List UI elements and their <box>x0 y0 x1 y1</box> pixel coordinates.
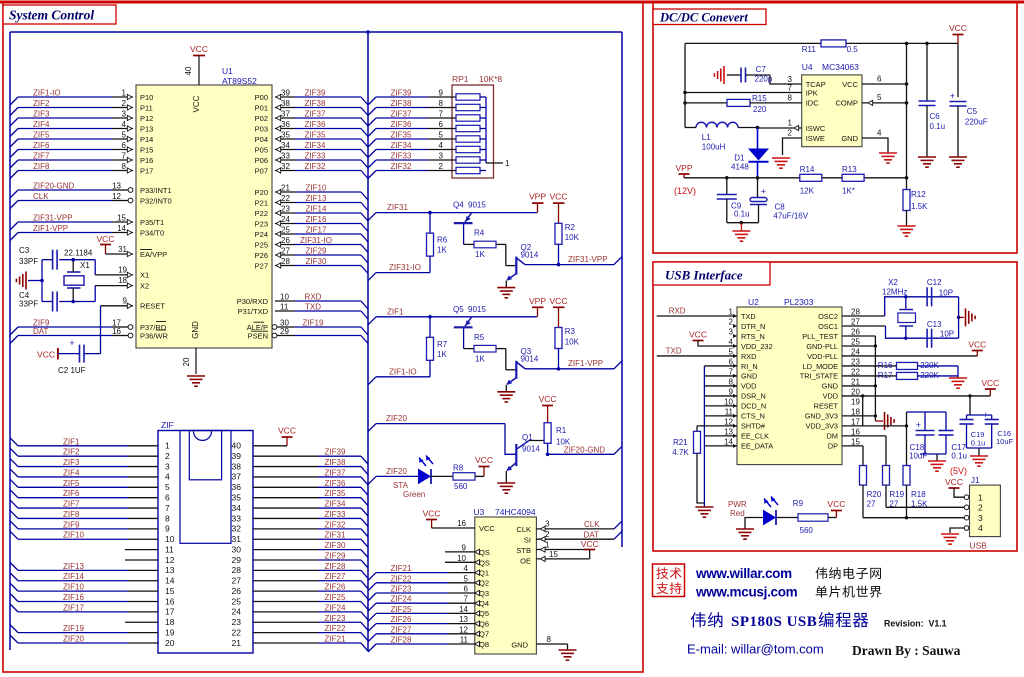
svg-text:12: 12 <box>165 555 175 565</box>
svg-text:8: 8 <box>729 377 734 386</box>
svg-text:C7: C7 <box>756 65 767 74</box>
svg-text:13: 13 <box>112 182 121 191</box>
svg-text:VPP: VPP <box>675 163 692 173</box>
svg-text:Revision: V1.1: Revision: V1.1 <box>884 619 947 629</box>
svg-text:2: 2 <box>788 129 793 138</box>
svg-text:27: 27 <box>281 247 290 256</box>
svg-text:28: 28 <box>281 257 290 266</box>
svg-text:6: 6 <box>165 493 170 503</box>
svg-text:ZIF17: ZIF17 <box>63 603 84 612</box>
svg-text:4: 4 <box>439 141 444 150</box>
svg-text:ZIF28: ZIF28 <box>391 636 412 645</box>
svg-text:7: 7 <box>464 595 469 604</box>
svg-text:(12V): (12V) <box>674 186 696 196</box>
svg-text:35: 35 <box>281 131 290 140</box>
svg-text:Q3: Q3 <box>479 589 489 598</box>
svg-text:VCC: VCC <box>581 539 599 549</box>
svg-text:ZIF17: ZIF17 <box>306 226 327 235</box>
svg-text:5: 5 <box>122 131 127 140</box>
svg-text:25: 25 <box>281 226 290 235</box>
svg-text:RI_N: RI_N <box>741 362 758 371</box>
svg-text:VCC: VCC <box>192 95 201 112</box>
svg-text:6: 6 <box>877 75 882 84</box>
svg-text:R17: R17 <box>878 371 893 380</box>
svg-text:MC34063: MC34063 <box>822 62 859 72</box>
svg-text:7: 7 <box>729 367 734 376</box>
svg-text:ZIF37: ZIF37 <box>391 110 412 119</box>
svg-text:27: 27 <box>889 500 898 509</box>
svg-text:ZIF10: ZIF10 <box>63 583 84 592</box>
svg-text:DAT: DAT <box>33 327 49 336</box>
svg-text:P00: P00 <box>255 93 268 102</box>
svg-text:25: 25 <box>232 596 242 606</box>
svg-text:9: 9 <box>462 543 467 552</box>
svg-text:ZIF29: ZIF29 <box>306 247 327 256</box>
svg-text:CLK: CLK <box>516 525 531 534</box>
svg-text:TXD: TXD <box>305 303 321 312</box>
svg-text:13: 13 <box>459 615 468 624</box>
svg-text:ZIF23: ZIF23 <box>325 614 346 623</box>
svg-text:23: 23 <box>232 617 242 627</box>
svg-text:System Control: System Control <box>9 8 94 23</box>
svg-text:P21: P21 <box>255 198 268 207</box>
svg-text:RXD: RXD <box>669 307 686 316</box>
svg-text:3: 3 <box>165 461 170 471</box>
svg-text:ZIF20-GND: ZIF20-GND <box>33 182 75 191</box>
svg-text:Drawn By : Sauwa: Drawn By : Sauwa <box>852 643 961 658</box>
svg-text:P14: P14 <box>140 135 153 144</box>
svg-text:STA: STA <box>393 481 409 490</box>
svg-text:P17: P17 <box>140 166 153 175</box>
svg-text:11: 11 <box>725 407 734 416</box>
svg-text:OSC2: OSC2 <box>818 312 838 321</box>
svg-text:VDD_232: VDD_232 <box>741 342 773 351</box>
svg-text:R14: R14 <box>800 165 815 174</box>
svg-text:7: 7 <box>788 84 793 93</box>
svg-text:4: 4 <box>877 129 882 138</box>
svg-text:P31/TXD: P31/TXD <box>238 307 269 316</box>
svg-text:VDD: VDD <box>823 392 838 401</box>
svg-text:P16: P16 <box>140 156 153 165</box>
svg-text:OSC1: OSC1 <box>818 322 838 331</box>
svg-text:+: + <box>916 420 921 430</box>
svg-text:ZIF38: ZIF38 <box>391 99 412 108</box>
svg-text:DC/DC Conevert: DC/DC Conevert <box>659 11 748 25</box>
svg-text:ZIF25: ZIF25 <box>391 605 412 614</box>
svg-text:ZIF13: ZIF13 <box>306 194 327 203</box>
svg-text:ZIF24: ZIF24 <box>325 603 346 612</box>
svg-text:6: 6 <box>464 585 469 594</box>
svg-text:ZIF13: ZIF13 <box>63 562 84 571</box>
svg-text:36: 36 <box>232 482 242 492</box>
svg-text:7: 7 <box>439 110 444 119</box>
svg-text:10: 10 <box>457 554 466 563</box>
svg-text:ZIF21: ZIF21 <box>391 564 412 573</box>
svg-text:ZIF8: ZIF8 <box>63 510 80 519</box>
svg-text:P10: P10 <box>140 93 153 102</box>
svg-text:1K: 1K <box>475 354 485 363</box>
svg-text:ZIF28: ZIF28 <box>325 562 346 571</box>
svg-text:C12: C12 <box>927 278 942 287</box>
svg-text:1: 1 <box>165 441 170 451</box>
svg-text:R3: R3 <box>565 327 576 336</box>
svg-text:15: 15 <box>549 550 558 559</box>
svg-text:TXD: TXD <box>741 312 756 321</box>
svg-text:X1: X1 <box>140 271 149 280</box>
svg-text:14: 14 <box>117 224 126 233</box>
svg-text:27: 27 <box>232 576 242 586</box>
svg-text:VCC: VCC <box>689 330 707 340</box>
svg-text:100uH: 100uH <box>702 143 726 152</box>
svg-text:ZIF1: ZIF1 <box>63 437 80 446</box>
svg-text:VDD_3V3: VDD_3V3 <box>806 422 838 431</box>
svg-text:R20: R20 <box>867 490 882 499</box>
svg-text:ZIF2: ZIF2 <box>63 448 80 457</box>
svg-text:9: 9 <box>123 297 128 306</box>
svg-text:0.1u: 0.1u <box>971 439 986 448</box>
svg-text:13: 13 <box>165 565 175 575</box>
svg-text:ZIF39: ZIF39 <box>391 89 412 98</box>
svg-text:ISWE: ISWE <box>806 134 825 143</box>
svg-text:R21: R21 <box>673 438 688 447</box>
svg-text:ZIF20-GND: ZIF20-GND <box>564 445 606 454</box>
svg-text:10: 10 <box>280 293 289 302</box>
svg-text:ZIF22: ZIF22 <box>325 624 346 633</box>
svg-text:32: 32 <box>281 162 290 171</box>
svg-text:9015: 9015 <box>468 305 486 314</box>
svg-text:7: 7 <box>122 152 127 161</box>
svg-text:12: 12 <box>112 192 121 201</box>
svg-text:23: 23 <box>281 205 290 214</box>
svg-text:ZIF36: ZIF36 <box>391 120 412 129</box>
svg-text:4: 4 <box>978 523 983 533</box>
svg-text:9014: 9014 <box>522 445 540 454</box>
svg-text:U2: U2 <box>748 297 759 307</box>
svg-text:R13: R13 <box>842 165 857 174</box>
svg-text:21: 21 <box>232 638 242 648</box>
svg-text:VCC: VCC <box>190 44 208 54</box>
svg-text:10K: 10K <box>565 233 580 242</box>
svg-text:P03: P03 <box>255 124 268 133</box>
svg-text:ZIF29: ZIF29 <box>325 551 346 560</box>
svg-text:10uF: 10uF <box>996 437 1014 446</box>
svg-text:17: 17 <box>165 607 175 617</box>
svg-text:VCC: VCC <box>278 425 296 435</box>
svg-text:USB Interface: USB Interface <box>665 268 743 283</box>
svg-text:PLL_TEST: PLL_TEST <box>802 332 838 341</box>
svg-text:33PF: 33PF <box>19 300 38 309</box>
svg-text:IDC: IDC <box>806 99 820 108</box>
svg-text:GND-PLL: GND-PLL <box>806 342 838 351</box>
svg-text:EA/VPP: EA/VPP <box>140 250 167 259</box>
svg-text:220uF: 220uF <box>965 118 988 127</box>
svg-text:R4: R4 <box>474 229 485 238</box>
svg-text:25: 25 <box>851 337 860 346</box>
svg-text:16: 16 <box>457 519 466 528</box>
svg-text:ZIF7: ZIF7 <box>33 152 50 161</box>
svg-text:ZIF1-VPP: ZIF1-VPP <box>33 224 68 233</box>
svg-text:2: 2 <box>439 162 444 171</box>
svg-text:2: 2 <box>122 99 127 108</box>
svg-text:ZIF10: ZIF10 <box>306 184 327 193</box>
svg-text:ZIF22: ZIF22 <box>391 574 412 583</box>
svg-text:RXD: RXD <box>741 352 756 361</box>
svg-text:9014: 9014 <box>521 251 539 260</box>
svg-text:19: 19 <box>851 397 860 406</box>
svg-text:38: 38 <box>281 99 290 108</box>
svg-text:13: 13 <box>724 427 733 436</box>
svg-text:21: 21 <box>281 184 290 193</box>
svg-text:1.5K: 1.5K <box>911 500 928 509</box>
svg-text:P02: P02 <box>255 114 268 123</box>
svg-text:ZIF30: ZIF30 <box>325 541 346 550</box>
svg-text:6: 6 <box>122 141 127 150</box>
svg-text:ZIF1: ZIF1 <box>387 307 404 316</box>
svg-text:40: 40 <box>184 66 193 75</box>
svg-text:28: 28 <box>232 565 242 575</box>
svg-text:9: 9 <box>439 89 444 98</box>
svg-text:RP1: RP1 <box>452 74 469 84</box>
svg-text:ZIF31-VPP: ZIF31-VPP <box>33 214 73 223</box>
svg-text:U4: U4 <box>802 62 813 72</box>
svg-text:P07: P07 <box>255 166 268 175</box>
svg-text:ZIF35: ZIF35 <box>325 489 346 498</box>
svg-text:VCC: VCC <box>97 234 115 244</box>
svg-text:ZIF27: ZIF27 <box>325 572 346 581</box>
svg-text:Q2: Q2 <box>479 579 489 588</box>
svg-text:Q8: Q8 <box>479 640 489 649</box>
svg-text:11: 11 <box>460 636 469 645</box>
svg-text:ZIF32: ZIF32 <box>325 520 346 529</box>
svg-text:www.willar.com: www.willar.com <box>695 566 792 581</box>
svg-text:E-mail: willar@tom.com: E-mail: willar@tom.com <box>687 642 824 657</box>
svg-text:ZIF20: ZIF20 <box>63 635 84 644</box>
svg-text:ZIF34: ZIF34 <box>391 141 412 150</box>
svg-text:VPP: VPP <box>529 296 546 306</box>
svg-text:28: 28 <box>851 308 860 317</box>
svg-text:220p: 220p <box>755 75 773 84</box>
svg-text:Q4: Q4 <box>479 599 489 608</box>
svg-text:22: 22 <box>851 367 860 376</box>
svg-text:R19: R19 <box>889 490 904 499</box>
svg-text:27: 27 <box>867 500 876 509</box>
svg-text:RESET: RESET <box>814 402 839 411</box>
svg-text:4: 4 <box>464 564 469 573</box>
svg-text:0.5: 0.5 <box>847 45 859 54</box>
svg-text:+: + <box>69 338 74 348</box>
svg-text:ZIF35: ZIF35 <box>391 131 412 140</box>
svg-text:LD_MODE: LD_MODE <box>803 362 838 371</box>
svg-text:RESET: RESET <box>140 302 165 311</box>
svg-text:R6: R6 <box>437 236 448 245</box>
svg-text:X2: X2 <box>888 278 898 287</box>
svg-text:0.1u: 0.1u <box>930 122 946 131</box>
svg-text:15: 15 <box>851 437 860 446</box>
svg-text:ZIF37: ZIF37 <box>305 110 326 119</box>
svg-text:P34/T0: P34/T0 <box>140 228 164 237</box>
svg-text:Q6: Q6 <box>479 619 489 628</box>
svg-text:P22: P22 <box>255 209 268 218</box>
svg-text:10: 10 <box>724 397 733 406</box>
svg-text:23: 23 <box>851 357 860 366</box>
svg-text:ZIF32: ZIF32 <box>305 162 326 171</box>
svg-text:ZIF34: ZIF34 <box>305 141 326 150</box>
svg-text:AT89S52: AT89S52 <box>222 76 257 86</box>
svg-text:ZIF3: ZIF3 <box>33 110 50 119</box>
svg-text:10K: 10K <box>565 337 580 346</box>
svg-text:11: 11 <box>280 303 289 312</box>
svg-text:Green: Green <box>403 490 425 499</box>
svg-text:R9: R9 <box>793 499 804 508</box>
svg-text:ZIF35: ZIF35 <box>305 131 326 140</box>
svg-text:U1: U1 <box>222 66 233 76</box>
svg-text:PL2303: PL2303 <box>784 297 814 307</box>
svg-text:ZIF36: ZIF36 <box>325 479 346 488</box>
svg-text:ZIF32: ZIF32 <box>391 162 412 171</box>
svg-text:P25: P25 <box>255 240 268 249</box>
svg-text:ZIF20: ZIF20 <box>386 414 407 423</box>
svg-text:12K: 12K <box>800 187 815 196</box>
svg-text:ZIF24: ZIF24 <box>391 595 412 604</box>
svg-text:P26: P26 <box>255 251 268 260</box>
svg-text:+: + <box>950 91 955 101</box>
svg-text:ZIF37: ZIF37 <box>325 468 346 477</box>
svg-text:32: 32 <box>232 524 242 534</box>
svg-text:4: 4 <box>122 120 127 129</box>
svg-text:9015: 9015 <box>468 201 486 210</box>
svg-text:C8: C8 <box>775 202 786 211</box>
svg-text:VDD-PLL: VDD-PLL <box>807 352 838 361</box>
svg-text:DM: DM <box>827 432 838 441</box>
svg-text:GND: GND <box>191 321 200 339</box>
svg-text:ZIF23: ZIF23 <box>391 585 412 594</box>
svg-text:P04: P04 <box>255 135 268 144</box>
svg-text:3: 3 <box>122 110 127 119</box>
svg-text:33PF: 33PF <box>19 257 38 266</box>
svg-text:26: 26 <box>281 236 290 245</box>
svg-text:ZIF33: ZIF33 <box>325 510 346 519</box>
svg-text:ZIF7: ZIF7 <box>63 500 80 509</box>
svg-text:ZIF14: ZIF14 <box>63 572 84 581</box>
svg-text:17: 17 <box>851 417 860 426</box>
svg-text:ZIF19: ZIF19 <box>303 319 324 328</box>
svg-text:Q4: Q4 <box>453 201 464 210</box>
svg-text:2: 2 <box>545 530 550 539</box>
svg-text:ISWC: ISWC <box>806 124 826 133</box>
svg-text:P36/WR: P36/WR <box>140 331 169 340</box>
svg-text:29: 29 <box>280 327 289 336</box>
svg-text:39: 39 <box>281 89 290 98</box>
svg-text:www.mcusj.com: www.mcusj.com <box>695 585 798 600</box>
svg-text:8: 8 <box>547 635 552 644</box>
svg-text:GND: GND <box>741 372 757 381</box>
svg-text:33: 33 <box>281 152 290 161</box>
svg-text:D1: D1 <box>734 154 745 163</box>
svg-text:CTS_N: CTS_N <box>741 412 765 421</box>
svg-text:P30/RXD: P30/RXD <box>237 297 269 306</box>
svg-text:47uF/16V: 47uF/16V <box>773 212 808 221</box>
svg-text:X2: X2 <box>140 281 149 290</box>
svg-text:ZIF1-VPP: ZIF1-VPP <box>568 359 603 368</box>
svg-text:5: 5 <box>877 93 882 102</box>
svg-text:ZIF2: ZIF2 <box>33 99 50 108</box>
svg-text:ZIF31: ZIF31 <box>325 531 346 540</box>
svg-text:P11: P11 <box>140 103 153 112</box>
svg-text:9: 9 <box>729 387 734 396</box>
svg-text:VCC: VCC <box>842 80 858 89</box>
svg-text:6: 6 <box>439 120 444 129</box>
svg-text:PWR: PWR <box>728 500 747 509</box>
svg-text:34: 34 <box>281 141 290 150</box>
svg-text:R15: R15 <box>752 94 767 103</box>
svg-text:15: 15 <box>117 214 126 223</box>
svg-text:4: 4 <box>165 472 170 482</box>
svg-text:ZIF39: ZIF39 <box>325 448 346 457</box>
svg-text:3: 3 <box>978 513 983 523</box>
svg-text:P05: P05 <box>255 145 268 154</box>
svg-text:TXD: TXD <box>666 346 682 355</box>
svg-text:VDD: VDD <box>741 382 756 391</box>
svg-text:7: 7 <box>165 503 170 513</box>
svg-text:ZIF5: ZIF5 <box>33 131 50 140</box>
svg-text:39: 39 <box>232 451 242 461</box>
svg-text:14: 14 <box>165 576 175 586</box>
svg-text:P13: P13 <box>140 124 153 133</box>
svg-text:16: 16 <box>165 596 175 606</box>
svg-text:ZIF30: ZIF30 <box>306 257 327 266</box>
svg-text:R16: R16 <box>878 361 893 370</box>
svg-text:STB: STB <box>516 546 531 555</box>
svg-text:6: 6 <box>729 357 734 366</box>
svg-text:P01: P01 <box>255 103 268 112</box>
svg-text:Q5: Q5 <box>453 305 464 314</box>
svg-text:ZIF26: ZIF26 <box>391 615 412 624</box>
svg-text:ZIF6: ZIF6 <box>33 141 50 150</box>
svg-text:19: 19 <box>165 627 175 637</box>
svg-text:ZIF20: ZIF20 <box>386 467 407 476</box>
svg-text:12: 12 <box>724 417 733 426</box>
svg-text:1: 1 <box>545 541 550 550</box>
svg-text:22: 22 <box>281 194 290 203</box>
svg-text:Q1: Q1 <box>479 568 489 577</box>
svg-text:ZIF39: ZIF39 <box>305 89 326 98</box>
svg-text:VCC: VCC <box>968 340 986 350</box>
svg-text:18: 18 <box>118 276 127 285</box>
svg-text:ZIF25: ZIF25 <box>325 593 346 602</box>
svg-text:ZIF33: ZIF33 <box>305 152 326 161</box>
svg-text:L1: L1 <box>702 133 711 142</box>
svg-text:DSR_N: DSR_N <box>741 392 766 401</box>
svg-text:ZIF19: ZIF19 <box>63 624 84 633</box>
svg-text:10P: 10P <box>939 289 953 298</box>
svg-text:R18: R18 <box>911 490 926 499</box>
svg-text:1K: 1K <box>437 350 447 359</box>
svg-text:USB: USB <box>970 541 988 551</box>
svg-text:24: 24 <box>281 215 290 224</box>
svg-text:33: 33 <box>232 513 242 523</box>
svg-text:12: 12 <box>459 625 468 634</box>
svg-text:4148: 4148 <box>731 163 749 172</box>
svg-text:VPP: VPP <box>529 192 546 202</box>
svg-text:P20: P20 <box>255 188 268 197</box>
svg-text:38: 38 <box>232 461 242 471</box>
svg-text:27: 27 <box>851 317 860 326</box>
svg-text:560: 560 <box>454 482 468 491</box>
svg-text:8: 8 <box>165 513 170 523</box>
svg-text:VCC: VCC <box>539 394 557 404</box>
svg-text:19: 19 <box>118 266 127 275</box>
svg-text:220K: 220K <box>920 371 939 380</box>
